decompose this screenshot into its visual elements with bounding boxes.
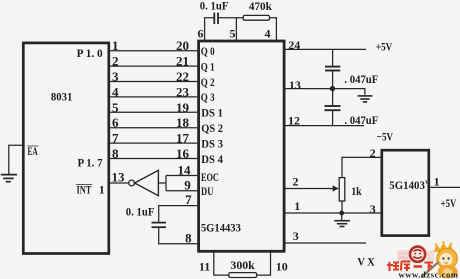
wire EA to ground (9, 145, 24, 174)
watermark text 维库一下 (drawn strokes) (387, 262, 433, 272)
svg-text:7: 7 (185, 192, 192, 207)
IC U2 5G14433 box (199, 41, 285, 251)
svg-text:470k: 470k (249, 0, 272, 13)
resistor R2 300k body (229, 273, 257, 278)
svg-text:1: 1 (112, 38, 119, 53)
wire pin4-23 (109, 96, 197, 98)
svg-text:1: 1 (294, 199, 300, 213)
wire inverter output (158, 182, 166, 184)
capacitor C4 .047uF plates (325, 106, 341, 110)
wire pin1 to 5G1403 pin3 (284, 212, 382, 214)
svg-text:6: 6 (112, 115, 119, 130)
svg-text:4: 4 (265, 27, 271, 41)
wire DU pin9 (166, 190, 197, 192)
wire 5G1403 pin1 to +5V (429, 186, 460, 188)
watermark mascot (421, 241, 458, 278)
capacitor C1 0.1uF plates (214, 13, 218, 24)
svg-text:13: 13 (289, 78, 301, 92)
svg-text:16: 16 (176, 146, 190, 161)
svg-text:300k: 300k (230, 258, 255, 272)
wire pin7-17 (109, 142, 197, 144)
labels inside 8031 (28, 46, 105, 197)
svg-text:24: 24 (288, 38, 300, 52)
glyph 维 (387, 262, 399, 271)
wire EOC pin14 (166, 175, 197, 177)
svg-text:4: 4 (112, 84, 119, 99)
wire INT1 pin13 to inverter (109, 182, 129, 184)
svg-text:DU: DU (201, 186, 214, 198)
wire pin7 to capacitor C2 (159, 206, 198, 222)
svg-text:. 047uF: . 047uF (344, 113, 378, 127)
wire R2 to pin10 stub (257, 251, 271, 276)
svg-text:www.dzsc.com: www.dzsc.com (399, 270, 459, 279)
svg-text:0. 1uF: 0. 1uF (126, 204, 155, 218)
wire pot bottom to junction (341, 201, 343, 213)
svg-text:EOC: EOC (201, 172, 219, 184)
svg-text:19: 19 (176, 100, 190, 115)
svg-text:13: 13 (112, 169, 126, 184)
svg-text:V X: V X (357, 255, 375, 269)
wire pin11 stub (214, 251, 229, 276)
capacitor C4 top stub (332, 89, 334, 106)
top components labels (198, 0, 273, 41)
svg-text:11: 11 (199, 260, 210, 274)
svg-text:1: 1 (99, 183, 105, 197)
svg-text:12: 12 (288, 114, 300, 128)
svg-text:DS 1: DS 1 (201, 108, 223, 120)
wire R1 to pin4 (270, 18, 277, 41)
node junction dot at pin13 net (330, 86, 335, 91)
potentiometer wiper arrow (333, 185, 339, 191)
wire junction vertical EOC/DU (165, 176, 167, 191)
IC U3 5G1403 box (382, 150, 429, 235)
svg-text:23: 23 (176, 84, 190, 99)
inverter U4 triangle (135, 170, 159, 195)
wire pin2 to potentiometer wiper (284, 188, 333, 190)
svg-text:5G14433: 5G14433 (201, 221, 241, 235)
resistor R1 470k body (243, 15, 269, 20)
wire pin6-18 (109, 127, 197, 129)
watermark emblem circle (410, 247, 425, 262)
capacitor C4 bottom stub (332, 111, 334, 126)
pin numbers right column 5G14433 left side (112, 38, 193, 245)
svg-text:DS 4: DS 4 (201, 154, 223, 166)
svg-text:9: 9 (184, 178, 191, 193)
svg-text:2: 2 (112, 54, 119, 69)
IC U1 8031 box (23, 43, 109, 254)
svg-text:8: 8 (112, 146, 119, 161)
svg-text:21: 21 (176, 54, 189, 69)
wire pot top to 5G1403 pin2 (342, 157, 382, 177)
svg-text:Q 1: Q 1 (201, 61, 215, 73)
svg-text:Q 3: Q 3 (201, 92, 215, 104)
svg-text:5: 5 (230, 27, 236, 41)
svg-text:+5V: +5V (441, 196, 457, 210)
capacitor C3 top stub (332, 49, 334, 65)
svg-text:2: 2 (293, 175, 299, 189)
svg-text:Q 0: Q 0 (201, 46, 215, 58)
svg-text:3: 3 (370, 202, 376, 216)
labels inside 5G14433 (201, 46, 241, 235)
wire pin3-22 (109, 81, 197, 83)
svg-text:2: 2 (370, 146, 376, 160)
right side labels (288, 38, 457, 269)
wire pin6 top stub (205, 18, 214, 41)
svg-text:7: 7 (112, 131, 119, 146)
glyph 一 (414, 265, 423, 268)
svg-text:5G1403: 5G1403 (389, 178, 425, 192)
watermark ghost text (397, 250, 434, 262)
svg-text:+5V: +5V (376, 39, 392, 53)
glyph 下 (425, 263, 434, 272)
capacitor C3 .047uF plates (325, 67, 340, 71)
wire pin5-19 (109, 111, 197, 113)
ground at node between C3 C4 (358, 96, 373, 102)
svg-text:5: 5 (112, 100, 119, 115)
wire pin13 node (284, 89, 365, 95)
wire C1 to R1 (219, 17, 244, 19)
svg-text:. 047uF: . 047uF (344, 72, 378, 86)
ground below potentiometer (334, 221, 350, 227)
svg-text:DS 3: DS 3 (201, 138, 223, 150)
wire pin3 to VX (284, 242, 366, 244)
wire pin12 to -5V (284, 125, 364, 127)
wire capacitor C2 to pin8 (159, 228, 198, 244)
svg-text:1: 1 (434, 175, 440, 189)
pin numbers left column 8031 (112, 38, 119, 161)
svg-text:14: 14 (178, 162, 192, 177)
svg-text:22: 22 (176, 69, 189, 84)
svg-text:17: 17 (176, 131, 190, 146)
svg-text:QS 2: QS 2 (201, 123, 223, 135)
wire pin24 to +5V (284, 48, 366, 50)
svg-text:3: 3 (112, 69, 119, 84)
wire pin2-21 (109, 65, 197, 67)
wire P1.7 pin8-16 (109, 158, 197, 160)
svg-text:6: 6 (198, 27, 204, 41)
svg-text:P 1. 0: P 1. 0 (77, 46, 103, 60)
svg-text:18: 18 (176, 115, 190, 130)
svg-text:10: 10 (276, 260, 288, 274)
capacitor C3 bottom stub (332, 71, 334, 88)
inverter U4 bubble (129, 180, 135, 186)
EA overline (28, 145, 39, 147)
glyph 库 (401, 262, 411, 272)
ground near EA (1, 175, 17, 182)
svg-text:−5V: −5V (377, 129, 393, 143)
node junction dot at pot bottom (339, 211, 344, 216)
wire junction to ground stub (341, 213, 343, 220)
svg-text:20: 20 (176, 38, 189, 53)
potentiometer RP1 1k body (339, 178, 345, 201)
bottom resistor labels (199, 258, 288, 274)
svg-text:0. 1uF: 0. 1uF (200, 0, 229, 13)
INT overline (76, 184, 92, 186)
svg-text:3: 3 (293, 229, 299, 243)
svg-text:P 1. 7: P 1. 7 (78, 156, 103, 170)
capacitor C2 0.1uF plates (152, 223, 167, 228)
svg-text:8: 8 (185, 231, 192, 246)
wire P1.0 pin1-20 (109, 50, 197, 52)
svg-text:8031: 8031 (51, 90, 73, 104)
svg-text:1k: 1k (351, 184, 362, 198)
svg-text:Q 2: Q 2 (201, 77, 215, 89)
wire pin5 stub (235, 18, 237, 41)
